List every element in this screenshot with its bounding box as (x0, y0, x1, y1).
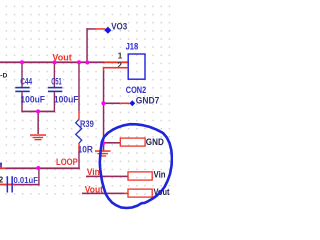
resistor R39 bottom wire maroon (78, 152, 79, 170)
capacitor C51 bottom wire (54, 92, 55, 111)
capacitor C44 top wire (21, 62, 22, 87)
wire ground drop (37, 111, 39, 134)
svg-text:GND: GND (146, 137, 164, 147)
svg-text:J18: J18 (126, 42, 139, 53)
svg-text:GND7: GND7 (136, 96, 160, 107)
resistor R39 zigzag (76, 120, 82, 144)
svg-text:C51: C51 (51, 77, 62, 87)
wire LOOP rail red left stub (0, 167, 6, 169)
wire VO3 horizontal maroon (86, 28, 95, 30)
svg-text:10R: 10R (78, 145, 94, 155)
wire VO3 pin red (96, 28, 106, 30)
wire cap ground bus (21, 111, 55, 113)
svg-text:Vin: Vin (154, 169, 166, 179)
port box Vin (128, 172, 152, 180)
ground symbol lower (103, 144, 105, 151)
wire pin2 red (103, 67, 128, 69)
wire pin2 vertical (103, 67, 105, 71)
svg-text:6-D: 6-D (0, 72, 8, 79)
tiny clipped label left of LOOP (0, 163, 2, 165)
capacitor C51 top wire (54, 62, 55, 87)
wire GND net vertical (103, 103, 105, 143)
capacitor C? red pin stubs (0, 184, 7, 186)
junction dot rail C51 (53, 60, 57, 64)
junction dot GND port (101, 141, 105, 145)
wire Vin (86, 176, 128, 178)
capacitor C51 plates (48, 87, 62, 89)
svg-text:CON2: CON2 (126, 85, 146, 96)
wire pin1 red segment (104, 61, 129, 63)
svg-text:VO3: VO3 (111, 21, 127, 32)
wire loop cap drop (38, 168, 39, 186)
svg-text:LOOP: LOOP (56, 157, 78, 168)
wire LOOP rail (6, 167, 80, 169)
ground symbol under caps (30, 134, 46, 140)
junction dot GND7 (101, 101, 105, 105)
wire Vout port maroon (82, 193, 124, 195)
svg-text:100uF: 100uF (20, 94, 45, 104)
wire loop cap horizontal maroon (15, 184, 40, 186)
resistor R39 top wire maroon (78, 62, 79, 111)
capacitor C44 plates (15, 87, 29, 89)
junction dot rail C44 (20, 60, 24, 64)
junction dot cap bus (36, 109, 40, 113)
svg-text:R39: R39 (80, 119, 94, 129)
wire GND7 horizontal maroon (103, 103, 120, 105)
junction dot LOOP (36, 166, 40, 170)
svg-text:1: 1 (118, 51, 123, 61)
resistor R39 bottom pin red (78, 144, 79, 152)
capacitor 0.01uF plates (7, 176, 9, 192)
wire Vout port red (124, 193, 128, 195)
power symbol GND7 diamond (129, 100, 135, 106)
wire VO3 vertical (86, 28, 88, 63)
svg-text:100uF: 100uF (54, 94, 79, 104)
wire Vout rail (0, 61, 104, 63)
svg-text:C44: C44 (20, 77, 33, 87)
annotation blue circle (100, 124, 172, 208)
wire GND7 pin red (120, 103, 129, 105)
junction dot rail VO3 (85, 61, 89, 65)
grid dots (0, 0, 171, 195)
resistor R39 top pin red (78, 111, 79, 119)
connector J18 box (128, 54, 145, 79)
port box Vout (128, 189, 152, 197)
svg-text:2: 2 (0, 176, 4, 185)
junction dot rail R39 (77, 60, 81, 64)
svg-text:0.01uF: 0.01uF (14, 176, 39, 185)
capacitor C44 bottom wire (21, 92, 22, 111)
port box GND (120, 138, 145, 146)
power symbol VO3 diamond (104, 27, 111, 34)
wire to GND port (103, 142, 120, 144)
